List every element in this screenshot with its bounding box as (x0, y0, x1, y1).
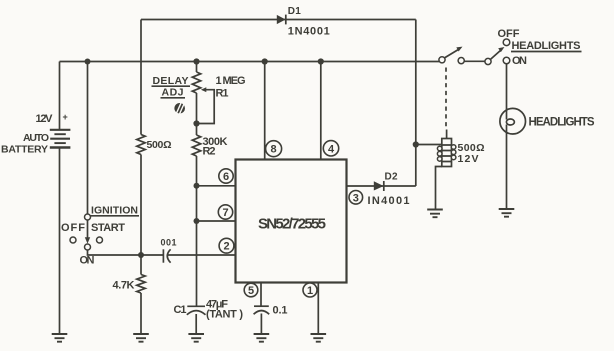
svg-text:+: + (63, 112, 68, 122)
ground (0.1 cap) (254, 334, 270, 342)
dashed mechanical link relay to contacts (445, 68, 447, 130)
pin 4 circle (323, 141, 338, 156)
switch S1 ON contact (85, 244, 91, 250)
headlight switch OFF contact (503, 39, 510, 46)
capacitor 0.1 curved plate (254, 311, 270, 315)
svg-text:START: START (91, 222, 125, 234)
pin 8 circle (266, 141, 282, 157)
svg-text:C1: C1 (174, 304, 187, 316)
wire cap to IC pin 2 (168, 254, 236, 256)
headlight switch blade with arrow (490, 50, 500, 59)
svg-text:BATTERY: BATTERY (1, 144, 48, 156)
ground (4.7K) (133, 334, 149, 342)
svg-text:3: 3 (353, 192, 359, 204)
svg-text:HEADLIGHTS: HEADLIGHTS (529, 117, 595, 129)
wire relay tap to coil (416, 144, 442, 146)
resistor 4.7K (137, 275, 145, 294)
relay coil bottom lead (436, 167, 442, 210)
relay contact B (458, 58, 464, 64)
resistor R2 300K (192, 135, 200, 156)
svg-text:500Ω: 500Ω (147, 139, 172, 151)
relay K1 coil body (437, 139, 456, 167)
wire bus to pin 4 (320, 62, 322, 160)
node junction bus at R1 (193, 58, 199, 64)
svg-text:1 MEG: 1 MEG (216, 75, 246, 87)
pin 3 circle (349, 191, 363, 205)
switch S1 OFF contact (70, 237, 76, 243)
wire right vertical from top rail to D2 (415, 20, 417, 187)
svg-text:12V: 12V (36, 113, 54, 125)
diode D2 (374, 181, 384, 190)
ground (C1) (188, 334, 204, 342)
svg-text:HEADLIGHTS: HEADLIGHTS (512, 40, 581, 52)
svg-text:4.7K: 4.7K (113, 280, 135, 292)
svg-text:(TANT ): (TANT ) (206, 309, 243, 321)
svg-text:ON: ON (80, 255, 95, 267)
svg-text:ON: ON (512, 55, 527, 67)
switch S1 START contact (97, 237, 103, 243)
switch S1 ignition: common contact (85, 214, 91, 220)
relay coil top lead (446, 130, 448, 139)
wire lamp to ground (506, 125, 508, 209)
svg-text:6: 6 (223, 171, 229, 183)
headlight switch common contact (485, 58, 491, 64)
lamp filament loop (506, 119, 514, 125)
svg-text:0.1: 0.1 (273, 305, 288, 317)
node junction pin 7 tap (194, 218, 200, 224)
wire pin 1 to ground (317, 283, 319, 334)
ground (pin 1) (311, 334, 327, 342)
node junction bus at pin 8 (262, 58, 268, 64)
svg-text:DELAY: DELAY (153, 75, 189, 87)
battery BT1 12V plates (50, 130, 71, 148)
node junction on bus at ignition branch (85, 59, 91, 65)
wire 0.1 cap to ground (260, 314, 262, 334)
headlight switch ON contact (503, 57, 510, 64)
wire C1 to ground (195, 314, 197, 334)
wire ON contact down to lamp (506, 64, 508, 120)
pin 5 circle (244, 283, 258, 297)
node junction bus at pin 4 (318, 58, 324, 64)
wire pin 3 to D2 and right vertical (347, 185, 416, 187)
pin 2 circle (219, 238, 234, 253)
node junction 4.7K tap (138, 252, 144, 258)
svg-text:OFF: OFF (61, 222, 85, 234)
svg-text:R1: R1 (216, 88, 229, 100)
svg-text:4: 4 (328, 143, 335, 155)
svg-text:1: 1 (307, 285, 313, 297)
R1 wiper arrow (201, 87, 206, 92)
node junction relay tap (413, 141, 419, 147)
ground (battery) (52, 334, 68, 342)
wire to pin 6 (197, 185, 236, 187)
svg-text:2: 2 (223, 241, 229, 253)
lamp headlights bulb circle (500, 108, 526, 134)
wire +12V bus rail (60, 61, 440, 63)
svg-text:12V: 12V (458, 153, 479, 165)
capacitor .001 left plate (162, 249, 164, 262)
wire 4.7K to ground (140, 293, 142, 334)
relay switch blade with arrow (444, 49, 459, 58)
svg-text:SN52/72555: SN52/72555 (258, 216, 326, 233)
wire pin 5 to 0.1 cap (260, 283, 262, 307)
wire 500 ohm bottom to 4.7K top (140, 155, 142, 275)
resistor 500 ohm (left) (137, 135, 145, 155)
svg-text:OFF: OFF (498, 28, 520, 40)
IC U1 SN52/72555 body (236, 160, 347, 283)
potentiometer R1 1 MEG body (192, 72, 200, 93)
wire contact B to headlight switch common (464, 60, 485, 62)
capacitor 0.1 top plate (254, 305, 269, 307)
wire battery negative lead to ground (59, 148, 61, 334)
ground (lamp) (499, 209, 515, 217)
svg-text:5: 5 (248, 285, 254, 297)
diode D1 (277, 15, 286, 24)
wire top rail from left corner to right corner (141, 19, 416, 21)
wire to pin 7 (197, 220, 236, 222)
screwdriver adjust symbol (174, 103, 185, 114)
svg-text:8: 8 (271, 144, 277, 156)
node junction pin 6 tap (194, 183, 200, 189)
wire R1 bottom to R2 (196, 93, 198, 135)
svg-text:7: 7 (222, 207, 228, 219)
svg-text:IN4001: IN4001 (368, 195, 410, 207)
relay contact A (439, 57, 445, 63)
pin 6 circle (219, 169, 233, 183)
pin 1 circle (303, 283, 317, 297)
wire ignition branch vertical (87, 62, 89, 215)
svg-text:001: 001 (161, 238, 177, 248)
wire bus to pin 8 (264, 62, 266, 160)
svg-text:D2: D2 (385, 172, 398, 183)
capacitor C1 top plate (187, 305, 205, 307)
svg-text:R2: R2 (203, 146, 216, 158)
wire switch ON contact to junction and cap (88, 250, 164, 255)
wire R2 bottom down to C1 (196, 156, 198, 306)
pin 7 circle (218, 205, 232, 219)
svg-text:IGNITION: IGNITION (91, 205, 138, 217)
capacitor .001 curved plate (167, 249, 170, 262)
node junction R1 bottom / R2 top (193, 120, 199, 126)
svg-text:D1: D1 (288, 6, 301, 17)
switch S1 blade arrow (87, 220, 89, 238)
capacitor C1 curved plate (187, 311, 206, 315)
svg-text:ADJ: ADJ (162, 87, 184, 99)
wire bus to R1 top (196, 62, 198, 73)
wire left vertical from top rail down to 500 ohm resistor (140, 20, 142, 135)
wire battery positive lead (59, 62, 61, 130)
ground (relay) (427, 210, 443, 218)
svg-text:1N4001: 1N4001 (288, 26, 330, 38)
svg-text:AUTO: AUTO (23, 132, 49, 144)
